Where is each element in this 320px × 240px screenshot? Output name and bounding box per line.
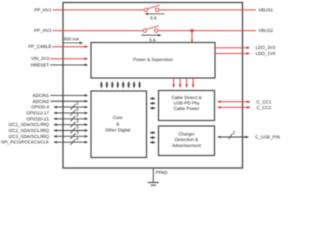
svg-text:GPIO0-4: GPIO0-4 xyxy=(31,105,49,110)
svg-text:Cable Power: Cable Power xyxy=(174,106,200,111)
block Charger Detection & Advertisement xyxy=(159,126,215,156)
wire switch SW2 to VBUS2 xyxy=(158,30,256,32)
chip outline U1 TPS25750 xyxy=(63,3,243,169)
svg-text:VIN_3V3: VIN_3V3 xyxy=(31,56,50,61)
svg-text:PPAD: PPAD xyxy=(156,170,169,175)
bus slash 3 xyxy=(70,122,75,128)
bus slash 3 xyxy=(70,133,75,139)
bus slash 5 xyxy=(70,104,75,110)
bus slash 2 xyxy=(229,134,233,139)
svg-text:Other Digital: Other Digital xyxy=(105,128,130,133)
wire ADCIN1 xyxy=(51,94,88,96)
wire I2C1_SDA/SCL/IRQ xyxy=(54,124,88,126)
bus Core to Cable Detect (3 bidirectional wires) xyxy=(150,99,155,109)
svg-text:GPIO20-21: GPIO20-21 xyxy=(26,116,49,121)
current arrow 5 A (left) xyxy=(145,13,164,15)
block Power & Supervisor xyxy=(91,43,215,79)
bus slash 2 xyxy=(70,116,75,122)
svg-text:Advertisement: Advertisement xyxy=(172,143,202,148)
bus slash 4 xyxy=(70,139,75,145)
block Cable Detect & USB-PD Phy Cable Power xyxy=(159,91,215,121)
svg-text:2: 2 xyxy=(233,130,236,135)
svg-text:PP_CABLE: PP_CABLE xyxy=(28,44,51,49)
svg-text:LDO_1V8: LDO_1V8 xyxy=(256,51,276,56)
svg-text:LDO_3V3: LDO_3V3 xyxy=(256,45,276,50)
svg-text:Cable Detect &: Cable Detect & xyxy=(171,95,201,100)
ground xyxy=(148,182,159,184)
svg-text:I2C3_SDA/SCL/IRQ: I2C3_SDA/SCL/IRQ xyxy=(8,134,49,139)
svg-text:5 A: 5 A xyxy=(149,37,156,42)
svg-text:GPIO12-17: GPIO12-17 xyxy=(26,110,49,115)
junction dot on VBUS2 net xyxy=(191,29,194,32)
svg-text:I2C2_SDA/SCL/IRQ: I2C2_SDA/SCL/IRQ xyxy=(8,128,49,133)
svg-text:ADCIN1: ADCIN1 xyxy=(32,93,49,98)
svg-text:PP_HV2: PP_HV2 xyxy=(34,28,52,33)
svg-text:Core: Core xyxy=(113,115,123,120)
wire PP_HV2 to switch SW2 xyxy=(53,30,144,32)
bus Core to Charger (3 bidirectional wires) xyxy=(150,133,155,143)
wire C_CC1 bidirectional xyxy=(218,101,250,103)
wire I2C3_SDA/SCL/IRQ xyxy=(54,135,88,137)
svg-text:SPI_PICO/POCI/CS/CLK: SPI_PICO/POCI/CS/CLK xyxy=(1,140,49,145)
svg-text:ADCIN2: ADCIN2 xyxy=(32,99,49,104)
wire switch SW1 to VBUS1 xyxy=(159,9,256,11)
switch SW2 5A xyxy=(143,29,146,32)
wire C_CC2 bidirectional xyxy=(218,106,250,108)
bus slash 6 xyxy=(70,110,75,116)
wire PP_CABLE into Power & Supervisor xyxy=(53,46,88,48)
bus Power to Core (8 bidirectional wires) xyxy=(101,82,139,88)
wire PP_HV1 to switch SW1 xyxy=(53,9,145,11)
svg-text:VBUS1: VBUS1 xyxy=(258,7,273,12)
wire LDO_1V8 out of Power & Supervisor xyxy=(215,53,250,55)
svg-text:HRESET: HRESET xyxy=(31,62,50,67)
bus slash 3 xyxy=(70,128,75,134)
svg-text:C_CC2: C_CC2 xyxy=(257,105,272,110)
wire SPI_PICO/POCI/CS/CLK xyxy=(54,141,88,143)
svg-text:USB-PD Phy: USB-PD Phy xyxy=(173,101,200,106)
svg-text:Power & Supervisor: Power & Supervisor xyxy=(133,57,173,62)
wire C_USB_P/N bidirectional bus of 2 xyxy=(218,136,249,138)
wire GPIO12-17 xyxy=(54,112,88,114)
svg-text:PP_HV1: PP_HV1 xyxy=(34,7,52,12)
switch SW1 5A xyxy=(144,8,147,11)
svg-text:Detection &: Detection & xyxy=(175,137,198,142)
svg-text:Charger: Charger xyxy=(178,132,195,137)
wire ADCIN2 xyxy=(51,100,88,102)
wire HRESET into Power & Supervisor xyxy=(50,64,88,66)
wire I2C2_SDA/SCL/IRQ xyxy=(54,130,88,132)
wire PPAD to ground xyxy=(152,168,154,182)
wire LDO_3V3 out of Power & Supervisor xyxy=(215,47,250,49)
svg-text:VBUS2: VBUS2 xyxy=(258,28,273,33)
power wires Power to Cable Detect (4 red) xyxy=(174,78,194,87)
wire GPIO0-4 xyxy=(54,106,88,108)
svg-text:5 A: 5 A xyxy=(150,16,157,21)
wire VIN_3V3 into Power & Supervisor xyxy=(50,58,88,60)
block Core & Other Digital xyxy=(91,91,147,158)
wire GPIO20-21 xyxy=(54,118,88,120)
svg-text:&: & xyxy=(116,121,119,126)
svg-text:600 mA: 600 mA xyxy=(64,36,79,41)
svg-text:C_USB_P/N: C_USB_P/N xyxy=(255,135,280,140)
svg-text:I2C1_SDA/SCL/IRQ: I2C1_SDA/SCL/IRQ xyxy=(8,122,49,127)
svg-text:C_CC1: C_CC1 xyxy=(257,99,272,104)
current arrow 5 A (right) xyxy=(141,34,160,36)
wire VBUS2 net down to Power & Supervisor xyxy=(191,31,193,42)
